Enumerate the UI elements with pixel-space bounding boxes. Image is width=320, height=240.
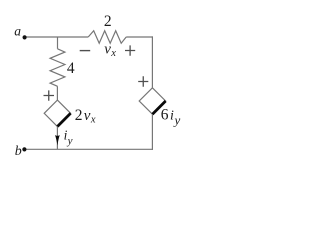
thick edge of 6iy diamond [152,101,165,114]
resistor 4 ohm (left, vertical zigzag) [50,49,65,87]
node a dot [23,35,27,39]
svg-text:2: 2 [104,13,112,30]
thick edge of 2vx diamond [57,113,70,126]
svg-text:2vx: 2vx [75,107,96,126]
dependent source 6iy (right diamond) [139,88,165,114]
plus sign (polarity of 2vx source) [44,90,55,100]
current arrow iy (pointing down) [55,135,60,146]
resistor 2 ohm (top, horizontal zigzag) [88,31,126,44]
plus sign (right polarity of vx) [125,45,135,55]
wire: top left from node a to 2-ohm resistor [27,36,89,38]
wire: left branch top (junction to 4-ohm resistor) [57,37,59,49]
plus sign (polarity of 6iy source) [138,76,148,87]
wire: top right from resistor to corner [126,36,153,38]
dependent source 2vx (left diamond) [44,100,70,126]
svg-text:iy: iy [64,127,73,147]
node b dot [22,147,26,151]
wire: bottom from corner to node b [26,148,152,150]
svg-text:4: 4 [67,60,75,77]
wire: right side vertical top [151,36,153,87]
wire: left branch between resistor and 2vx source [56,86,58,100]
wire: left branch bottom (2vx source to bottom wire) [56,127,58,150]
minus sign (left polarity of vx) [80,50,91,52]
svg-text:a: a [14,24,21,39]
wire: right side vertical bottom [151,114,153,150]
svg-text:b: b [15,144,22,159]
svg-text:vx: vx [104,41,116,59]
svg-text:6iy: 6iy [161,106,181,127]
